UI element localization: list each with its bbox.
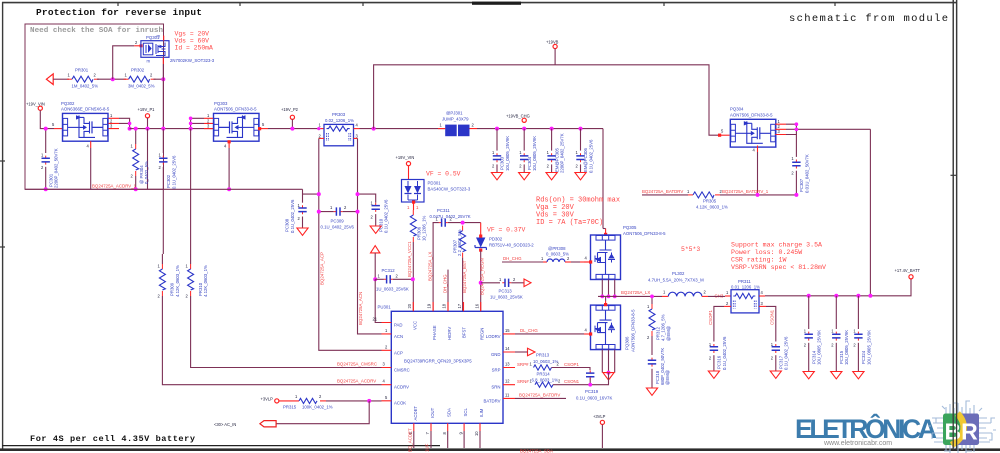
node LX dots bbox=[600, 295, 604, 299]
svg-text:DH_CHG: DH_CHG bbox=[503, 256, 522, 261]
wire to PR311 bbox=[708, 295, 725, 297]
svg-text:@EM@: @EM@ bbox=[666, 326, 671, 341]
svg-text:4.12K_0603_1%: 4.12K_0603_1% bbox=[175, 265, 180, 297]
svg-text:SDA: SDA bbox=[447, 408, 452, 417]
svg-text:PR301: PR301 bbox=[75, 68, 89, 73]
wire arrow stem bbox=[374, 253, 376, 279]
svg-text:BQ24725A_REGN: BQ24725A_REGN bbox=[480, 258, 485, 295]
off-page arrow left bbox=[46, 74, 53, 85]
node PQ303 bus dots bbox=[189, 117, 193, 121]
svg-text:10_1206_1%: 10_1206_1% bbox=[422, 215, 427, 241]
svg-text:VF = 0.37V: VF = 0.37V bbox=[487, 227, 526, 234]
svg-text:10U_0805_25V9K: 10U_0805_25V9K bbox=[505, 136, 510, 171]
PQ301 top stub bbox=[163, 36, 165, 41]
PD301 bottom stub bbox=[413, 202, 415, 210]
svg-text:+3VLP: +3VLP bbox=[261, 397, 274, 402]
svg-text:+19V_P1: +19V_P1 bbox=[138, 107, 156, 112]
off-page arrow right PC313 bbox=[524, 279, 531, 287]
svg-text:BQ24739RGRR_QFN20_3P5X3P5: BQ24739RGRR_QFN20_3P5X3P5 bbox=[404, 359, 472, 364]
svg-text:1U_0603_25V6K: 1U_0603_25V6K bbox=[490, 294, 523, 299]
power +19V_P1 symbol bbox=[145, 114, 149, 118]
svg-text:Id = 250mA: Id = 250mA bbox=[175, 45, 214, 52]
svg-text:BQ24725A_LX: BQ24725A_LX bbox=[428, 252, 433, 281]
svg-text:SCL: SCL bbox=[463, 408, 468, 417]
border frame right overlay bbox=[953, 0, 956, 450]
node PC311/BST bbox=[461, 221, 465, 225]
node junction PR302/column bbox=[161, 77, 165, 81]
svg-text:PAD: PAD bbox=[394, 323, 403, 328]
wire main rail segment 2 bbox=[268, 128, 319, 130]
svg-text:PC319: PC319 bbox=[585, 389, 599, 394]
wire CSOP1 to cap bbox=[552, 368, 591, 371]
svg-text:21: 21 bbox=[373, 317, 378, 322]
PQ301 pin 2 stub bbox=[134, 45, 141, 47]
svg-text:0_0402_5%: 0_0402_5% bbox=[144, 161, 149, 184]
wire PR302 to column bbox=[154, 78, 164, 80]
svg-text:4.7UH_5.5A_20%_7X7X3_M: 4.7UH_5.5A_20%_7X7X3_M bbox=[648, 277, 704, 282]
node PQ303 gate on ACDRV_1 bbox=[227, 187, 231, 191]
node PQ304 bus bbox=[795, 122, 799, 126]
capacitor PC303 bbox=[495, 127, 499, 131]
capacitor PC311 (horizontal) bbox=[433, 223, 439, 312]
chip right pin stubs bbox=[503, 334, 515, 399]
svg-text:PQ302: PQ302 bbox=[61, 101, 75, 106]
svg-text:PU301: PU301 bbox=[378, 305, 392, 310]
svg-text:VF = 0.5V: VF = 0.5V bbox=[426, 170, 461, 177]
svg-text:@EM@: @EM@ bbox=[665, 370, 670, 385]
wire +3VLP right stem bbox=[601, 425, 603, 449]
svg-text:BQ24725A_ACDRV_1: BQ24725A_ACDRV_1 bbox=[92, 183, 137, 188]
svg-text:4.12K_0603_1%: 4.12K_0603_1% bbox=[203, 265, 208, 297]
svg-text:2200P_0402_25V7K: 2200P_0402_25V7K bbox=[560, 133, 565, 173]
transistor PQ304 (mirrored DFN) bbox=[730, 119, 776, 147]
svg-text:10U_0805_25V9K: 10U_0805_25V9K bbox=[532, 136, 537, 171]
capacitor PC306 bbox=[579, 127, 583, 131]
svg-text:PD302: PD302 bbox=[489, 237, 503, 242]
svg-text:LODRV: LODRV bbox=[486, 334, 501, 339]
svg-text:+19V_VIN: +19V_VIN bbox=[396, 155, 415, 160]
capacitor PC319 bbox=[586, 370, 594, 379]
power +19VB_CHG symbol bbox=[522, 118, 526, 122]
resistor PR312 column bbox=[651, 296, 653, 304]
svg-text:CSON1: CSON1 bbox=[770, 309, 775, 325]
node junction PR301/PQ301 bbox=[111, 77, 115, 81]
svg-text:BQ_ACDET: BQ_ACDET bbox=[408, 428, 413, 452]
svg-text:DL_CHG: DL_CHG bbox=[520, 328, 538, 333]
svg-text:+19VB: +19VB bbox=[546, 40, 559, 45]
svg-text:ACOK: ACOK bbox=[394, 401, 406, 406]
PQ305 top square bbox=[604, 233, 607, 236]
svg-text:ACN: ACN bbox=[394, 334, 403, 339]
svg-text:16: 16 bbox=[474, 303, 479, 308]
svg-text:0.1U_0402_25V6: 0.1U_0402_25V6 bbox=[588, 139, 593, 173]
svg-text:AON7506_DFN33-8-5: AON7506_DFN33-8-5 bbox=[623, 231, 666, 236]
svg-text:PC312: PC312 bbox=[382, 268, 396, 273]
svg-text:6.8_0603_1%: 6.8_0603_1% bbox=[532, 377, 559, 382]
PR308 stub into gate bbox=[571, 261, 580, 263]
svg-text:0.01U_0402_50V7K: 0.01U_0402_50V7K bbox=[804, 154, 809, 193]
PR303 pin4 stub bbox=[354, 128, 360, 130]
svg-text:10U_0805_25V9K: 10U_0805_25V9K bbox=[844, 330, 849, 365]
svg-text:GND: GND bbox=[491, 352, 501, 357]
svg-text:12: 12 bbox=[505, 379, 510, 384]
resistor PR301 bbox=[67, 76, 99, 82]
transistor PQ306 bbox=[591, 305, 621, 350]
capacitor PC316 bbox=[710, 344, 718, 353]
diode PD302 on REGN column bbox=[480, 223, 482, 236]
resistor PR315 bbox=[299, 398, 317, 403]
wire PQ301 gate riser bbox=[113, 46, 135, 79]
bottom text underline bbox=[2, 445, 440, 447]
logo chip traces bbox=[928, 401, 996, 453]
svg-text:CSOP1: CSOP1 bbox=[708, 310, 713, 325]
svg-text:0.02_1206_1%: 0.02_1206_1% bbox=[325, 118, 354, 123]
wire VCC column bbox=[412, 242, 414, 311]
node PR304 bottom bbox=[134, 187, 138, 191]
svg-text:ILIM: ILIM bbox=[479, 408, 484, 417]
wire VIN2 stem bbox=[408, 166, 410, 180]
wire PR301 to PR302 bbox=[97, 78, 126, 80]
svg-text:For 4S per cell 4.35V battery: For 4S per cell 4.35V battery bbox=[30, 434, 195, 444]
svg-text:DH_CHG: DH_CHG bbox=[442, 274, 447, 293]
node PC309 right bbox=[356, 210, 360, 214]
capacitor PC324 bbox=[857, 296, 859, 329]
svg-text:ID = 7A (Ta=70C): ID = 7A (Ta=70C) bbox=[536, 219, 603, 227]
svg-text:ACDET: ACDET bbox=[413, 406, 418, 421]
transistor PQ303 bbox=[214, 113, 260, 141]
annotation box (purple) bbox=[25, 24, 164, 189]
wire LX bus bbox=[598, 295, 662, 297]
svg-text:m: m bbox=[147, 59, 151, 64]
svg-text:PQ303: PQ303 bbox=[214, 101, 228, 106]
node column main rail bbox=[161, 127, 165, 131]
svg-text:+19V_VIN: +19V_VIN bbox=[26, 102, 45, 107]
svg-text:BQ24725A_ACN: BQ24725A_ACN bbox=[358, 292, 363, 325]
resistor PR309 column bbox=[162, 189, 164, 254]
svg-text:10U_0805_25V9K: 10U_0805_25V9K bbox=[866, 330, 871, 365]
wire BQ24725A_BATDRV_1 bbox=[642, 194, 688, 196]
svg-text:BAS40CW_SOT323-3: BAS40CW_SOT323-3 bbox=[428, 187, 471, 192]
svg-text:PR311: PR311 bbox=[738, 279, 751, 284]
wire AC_IN riser bbox=[276, 401, 369, 424]
transistor Q PQ301 body bbox=[141, 41, 169, 58]
power arrow up bbox=[371, 246, 380, 253]
svg-text:BQ24725A_ACP: BQ24725A_ACP bbox=[319, 252, 324, 285]
jumper PJ301 bbox=[438, 125, 477, 137]
capacitor PC307 bbox=[795, 135, 797, 157]
ground PQ306 bbox=[603, 373, 614, 380]
svg-text:4.12K_0603_1%: 4.12K_0603_1% bbox=[696, 204, 728, 209]
PR311 pin4 stub bbox=[759, 295, 765, 297]
svg-text:AON7506_DFN33-8-5: AON7506_DFN33-8-5 bbox=[730, 113, 773, 118]
node PQ306 source bbox=[607, 371, 611, 375]
power +3VLP symbol (left) bbox=[275, 399, 279, 403]
wire CSON1 bbox=[553, 373, 609, 385]
resistor PR302 bbox=[124, 76, 156, 82]
wire PQ304 gate drop bbox=[757, 152, 759, 195]
inductor PL302 bbox=[662, 295, 668, 297]
frame tick right bbox=[951, 174, 958, 176]
wire PQ302 gate drop bbox=[90, 148, 92, 189]
wire output rail bbox=[765, 279, 911, 296]
resistor PR303 (boxed) bbox=[324, 124, 354, 145]
capacitor PC308 bbox=[302, 189, 304, 202]
svg-text:m: m bbox=[157, 34, 161, 39]
svg-text:BR: BR bbox=[945, 418, 979, 444]
wire PQ303 gate drop bbox=[228, 148, 230, 189]
svg-text:+3VLP: +3VLP bbox=[593, 414, 606, 419]
resistor PR307 on BST column bbox=[460, 226, 466, 258]
wire P2 stem bbox=[291, 119, 293, 128]
wire VIN stem bbox=[40, 110, 54, 128]
resistor PR314 (SRP) bbox=[534, 365, 552, 370]
capacitor PC315 bbox=[835, 296, 837, 329]
chip top pin stubs bbox=[413, 302, 480, 311]
svg-text:Protection for reverse input: Protection for reverse input bbox=[36, 7, 202, 18]
node PR303 left bbox=[317, 127, 320, 130]
wire +19VB stem bbox=[554, 49, 556, 65]
frame ticks top bbox=[118, 2, 835, 6]
svg-text:Vgs = 20V: Vgs = 20V bbox=[175, 30, 210, 37]
svg-text:SRN#: SRN# bbox=[517, 379, 529, 384]
svg-text:3M_0402_5%: 3M_0402_5% bbox=[128, 84, 155, 89]
svg-text:CSR rating: 1W: CSR rating: 1W bbox=[731, 257, 786, 264]
node P1 bbox=[146, 127, 150, 131]
transistor PQ302 (mirrored DFN) bbox=[63, 113, 109, 141]
svg-text:18: 18 bbox=[442, 303, 447, 308]
svg-text:PQ305: PQ305 bbox=[623, 225, 637, 230]
svg-text:VCC: VCC bbox=[412, 321, 417, 330]
PR303 pin2 stub bbox=[319, 137, 324, 139]
GND pin flag PR313 bbox=[528, 348, 536, 355]
svg-text:PC313: PC313 bbox=[499, 288, 513, 293]
PQ306 source legs bbox=[602, 350, 614, 373]
wire kelvin ACN column bbox=[358, 138, 382, 334]
wire P1 stem bbox=[147, 118, 149, 129]
node PR304 top bbox=[134, 127, 138, 131]
capacitor PC313 (horizontal) bbox=[481, 282, 500, 284]
svg-text:13: 13 bbox=[505, 362, 510, 367]
PR311 pin3 stub and CSON column bbox=[759, 305, 766, 307]
wires bottom pins to edge bbox=[414, 431, 480, 448]
PR315 stub bbox=[279, 400, 299, 402]
capacitor PC305 bbox=[550, 127, 554, 131]
capacitor PC304 bbox=[522, 127, 526, 131]
border frame bottom bbox=[0, 448, 1000, 451]
capacitor PC302 on column bbox=[162, 129, 164, 153]
svg-text:10_0603_1%: 10_0603_1% bbox=[533, 359, 559, 364]
resistor PR305 bbox=[688, 192, 720, 198]
power +19V_P2 symbol bbox=[290, 115, 294, 119]
svg-text:0.1U_0402_25V6: 0.1U_0402_25V6 bbox=[784, 336, 789, 370]
node PC309 left bbox=[317, 210, 321, 214]
svg-text:0.1U_0402_25V6: 0.1U_0402_25V6 bbox=[722, 336, 727, 370]
PQ305 source legs bbox=[602, 280, 614, 297]
PQ304 pin4 stub bbox=[757, 146, 759, 153]
PR303 pin3 stub bbox=[354, 137, 358, 139]
chip bottom pin stubs bbox=[414, 423, 480, 431]
svg-text:SRN: SRN bbox=[491, 385, 500, 390]
svg-text:CSON1: CSON1 bbox=[564, 379, 580, 384]
svg-text:2200P_0402_50V7K: 2200P_0402_50V7K bbox=[54, 148, 59, 188]
svg-text:AON6366E_DFN5X6-8-5: AON6366E_DFN5X6-8-5 bbox=[61, 107, 110, 112]
svg-text:@PR308: @PR308 bbox=[548, 246, 566, 251]
svg-text:1M_0402_5%: 1M_0402_5% bbox=[72, 84, 99, 89]
PQ303 left bus bbox=[191, 118, 204, 128]
resistor PR306 bbox=[410, 210, 416, 242]
svg-text:BQ24725A_VCC1: BQ24725A_VCC1 bbox=[407, 241, 412, 277]
node P2 bbox=[290, 127, 294, 131]
svg-text:BQ24725A_BATDRV: BQ24725A_BATDRV bbox=[519, 392, 560, 397]
resistor PR311 (boxed) bbox=[731, 290, 759, 313]
svg-text:10: 10 bbox=[474, 431, 479, 436]
PR311 pin2 stub and CSOP column bbox=[724, 305, 731, 307]
svg-text:+19VB_CHG: +19VB_CHG bbox=[506, 114, 530, 119]
wire HIDRV column bbox=[447, 270, 449, 312]
wire PR315 to ACOK bbox=[326, 400, 382, 402]
svg-text:20: 20 bbox=[407, 303, 412, 308]
svg-text:HIDRV: HIDRV bbox=[447, 327, 452, 340]
svg-text:2.2_0603_5%: 2.2_0603_5% bbox=[457, 229, 462, 256]
frame top thick dash bbox=[472, 2, 521, 5]
capacitor PC314 bbox=[808, 296, 810, 329]
svg-text:AON7506_DFN33-8-5: AON7506_DFN33-8-5 bbox=[631, 309, 636, 352]
wire PQ302 right bus bbox=[119, 118, 130, 128]
svg-text:PR315: PR315 bbox=[283, 404, 297, 409]
svg-text:BQ24725A_BATDRV_1: BQ24725A_BATDRV_1 bbox=[722, 189, 769, 194]
svg-text:100K_0402_1%: 100K_0402_1% bbox=[302, 404, 333, 409]
wire BATDRV stub bbox=[515, 397, 566, 399]
node PC308/ACP bbox=[317, 192, 321, 196]
svg-text:10U_0805_25V9K: 10U_0805_25V9K bbox=[817, 330, 822, 365]
svg-text:0.1U_0402_25V6: 0.1U_0402_25V6 bbox=[171, 155, 176, 189]
PQ303 pin 4 square bbox=[228, 140, 231, 143]
svg-text:BQ24725A_CMSRC: BQ24725A_CMSRC bbox=[337, 362, 377, 367]
svg-text:RB751V-40_SOD323-2: RB751V-40_SOD323-2 bbox=[489, 243, 534, 248]
PQ302 pin 4 stub bbox=[90, 141, 92, 148]
capacitor PC301 bbox=[45, 129, 47, 153]
wire LODRV DL_CHG bbox=[515, 333, 584, 335]
frame tick left 1 bbox=[0, 160, 5, 162]
PQ301 source stub down bbox=[162, 57, 164, 64]
PR303 pin1 stub bbox=[319, 128, 324, 130]
svg-text:PR303: PR303 bbox=[332, 112, 346, 117]
node PC312 left bbox=[373, 277, 377, 281]
power +3VLP symbol (right) bbox=[600, 420, 604, 424]
PQ302 pin 5 stub bbox=[54, 128, 63, 130]
PQ303 pin 5 square bbox=[258, 127, 261, 130]
connector AC_IN tag bbox=[260, 421, 276, 427]
wire arrow to PR301 bbox=[53, 78, 69, 80]
svg-text:JUMP_43X79: JUMP_43X79 bbox=[442, 117, 469, 122]
resistor PR308 bbox=[543, 261, 547, 263]
svg-text:schematic from module: schematic from module bbox=[789, 13, 948, 25]
resistor PR310 column bbox=[190, 129, 192, 254]
svg-text:15: 15 bbox=[505, 328, 510, 333]
svg-text:PQ306: PQ306 bbox=[625, 336, 630, 350]
node ACOK junction bbox=[367, 399, 371, 403]
svg-text:VSRP-VSRN spec < 81.28mV: VSRP-VSRN spec < 81.28mV bbox=[731, 264, 826, 271]
PQ301 pin2 square bbox=[140, 44, 143, 47]
svg-text:@PJ301: @PJ301 bbox=[446, 111, 463, 116]
svg-text:PR314: PR314 bbox=[537, 371, 551, 376]
wire main rail segment 1 bbox=[130, 128, 214, 130]
wire rail drop to PQ305 bbox=[602, 129, 604, 229]
svg-text:0.1U_0402_25V6: 0.1U_0402_25V6 bbox=[290, 199, 295, 233]
svg-text:<30> AC_IN: <30> AC_IN bbox=[214, 422, 236, 427]
svg-text:11: 11 bbox=[505, 392, 510, 397]
wire column PQ301 down to main rail bbox=[162, 64, 164, 129]
wire P1 column down bbox=[147, 129, 149, 190]
border frame right double line bbox=[953, 0, 956, 450]
wire main rail segment 4 bbox=[477, 128, 603, 130]
PQ306 gate square bbox=[589, 332, 592, 335]
svg-text:5*5*3: 5*5*3 bbox=[681, 246, 700, 253]
border frame top bbox=[2, 2, 956, 4]
frame tick left 2 bbox=[0, 246, 5, 248]
svg-text:19: 19 bbox=[427, 303, 432, 308]
svg-text:Support max charge 3.5A: Support max charge 3.5A bbox=[731, 242, 822, 249]
transistor PQ305 bbox=[591, 235, 621, 280]
node PQ302 bus dots bbox=[128, 122, 132, 126]
svg-text:PR313: PR313 bbox=[536, 353, 550, 358]
svg-text:CSOP1: CSOP1 bbox=[564, 362, 579, 367]
PQ304 pins 1-3 stubs bbox=[775, 124, 786, 134]
svg-text:REGN: REGN bbox=[480, 328, 485, 340]
wire kelvin ACP column bbox=[319, 138, 382, 350]
svg-text:BQ24725A_BATDRV: BQ24725A_BATDRV bbox=[642, 189, 683, 194]
svg-text:BQ24725A_LX: BQ24725A_LX bbox=[621, 290, 650, 295]
svg-text:BQ24725A_SDA: BQ24725A_SDA bbox=[520, 449, 553, 453]
svg-text:PL302: PL302 bbox=[672, 271, 685, 276]
PQ305 top stub bbox=[605, 229, 607, 236]
svg-text:Power loss: 0.245W: Power loss: 0.245W bbox=[731, 249, 802, 256]
logo chip body bbox=[943, 414, 979, 446]
PC308 wire to ACP column bbox=[303, 193, 319, 195]
capacitor PC317 bbox=[772, 344, 780, 353]
svg-text:ACP: ACP bbox=[394, 350, 403, 355]
svg-text:CMSRC: CMSRC bbox=[394, 368, 410, 373]
svg-text:17: 17 bbox=[457, 303, 462, 308]
wire PQ304 right bus bbox=[786, 124, 870, 134]
node REGN/PC313 bbox=[479, 281, 483, 285]
svg-text:+19V_P2: +19V_P2 bbox=[281, 107, 299, 112]
chip left pin stubs bbox=[382, 323, 392, 401]
wire PAD riser bbox=[375, 279, 381, 322]
svg-text:0.1U_0402_25V6: 0.1U_0402_25V6 bbox=[384, 199, 389, 233]
wire +19VB top rail bbox=[374, 65, 719, 135]
resistor (SRN row) bbox=[535, 382, 553, 387]
svg-text:BFST: BFST bbox=[462, 327, 467, 338]
capacitor PC318 bbox=[648, 358, 656, 367]
power +19V_VIN (2nd) symbol bbox=[406, 162, 410, 166]
capacitor PC310 bbox=[358, 194, 376, 203]
svg-text:PR305: PR305 bbox=[703, 198, 717, 203]
svg-text:1U_0603_25V6K: 1U_0603_25V6K bbox=[376, 287, 409, 292]
PQ304 pin5 stub bbox=[719, 134, 730, 136]
PQ305 gate stub bbox=[584, 261, 591, 263]
capacitor PC309 (horizontal) bbox=[334, 207, 343, 215]
svg-text:SRP: SRP bbox=[492, 368, 501, 373]
ground PC310 bbox=[370, 226, 381, 233]
svg-text:PC309: PC309 bbox=[331, 219, 345, 224]
svg-text:BQ24725A_BST: BQ24725A_BST bbox=[462, 260, 467, 293]
PQ302 pins 1-3 stubs right bbox=[109, 118, 120, 128]
op-amp U1 PU301 body bbox=[391, 311, 503, 423]
power +17.4V_BATT symbol bbox=[909, 275, 913, 279]
svg-text:PQ304: PQ304 bbox=[730, 107, 744, 112]
PQ306 gate stub bbox=[584, 333, 591, 335]
